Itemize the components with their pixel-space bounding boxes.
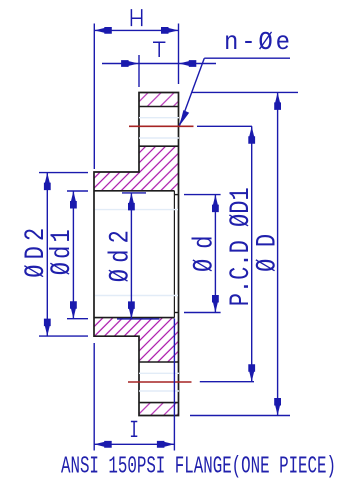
Od1 arrows: [70, 191, 77, 209]
Od bottom extension line: [184, 312, 221, 314]
T left extension line: [138, 55, 140, 87]
Od top extension line: [184, 194, 221, 196]
svg-text:ANSI 150PSI FLANGE(ONE PIECE): ANSI 150PSI FLANGE(ONE PIECE): [61, 454, 336, 481]
bolt hole top edge (upper): [139, 106, 179, 108]
PCD top extension line: [197, 125, 252, 127]
I arrows: [94, 441, 112, 448]
bolt hole top edge (lower): [139, 361, 179, 363]
flange outline: [94, 93, 179, 416]
bolt hole bottom edge (upper): [139, 145, 179, 147]
Od1 bottom extension line: [67, 318, 88, 320]
svg-text:Ød1: Ød1: [47, 229, 78, 275]
label I: [131, 422, 137, 437]
red centerline bottom bolt hole: [128, 381, 192, 383]
n-Oe leader diagonal: [180, 58, 205, 125]
OD dimension line: [277, 92, 279, 415]
n-Oe leader underline: [204, 57, 290, 59]
T arrows (outside): [121, 60, 139, 67]
Od arrows: [212, 195, 219, 213]
OD2 arrows: [44, 173, 51, 191]
OD arrows: [274, 92, 281, 110]
Od2 dimension line: [130, 193, 132, 319]
red centerline top bolt hole: [129, 125, 194, 127]
H/T right extension line: [178, 24, 180, 85]
PCD arrows: [248, 126, 255, 144]
Od1 top extension line: [67, 190, 88, 192]
hatched section: top flange band: [139, 93, 179, 107]
T dimension line: [102, 63, 216, 65]
H arrows: [94, 27, 112, 34]
hatched section: bottom flange band: [139, 403, 179, 416]
bore top edge: [94, 190, 174, 192]
Od1 dimension line: [72, 191, 74, 319]
OD bottom extension line: [190, 415, 290, 417]
bore step line: [173, 191, 175, 318]
hatched section: lower hub/plate region: [94, 318, 179, 362]
PCD bottom extension line: [200, 381, 254, 383]
I right extension line: [173, 319, 175, 451]
label H: [131, 9, 141, 26]
OD2 bottom extension line: [39, 335, 88, 337]
bore bottom edge: [94, 317, 174, 319]
H left extension line: [93, 24, 95, 170]
OD top extension line: [192, 91, 298, 93]
faint guide lines: [95, 118, 179, 391]
Od2 arrows: [128, 193, 135, 211]
small bore bottom edge: [174, 312, 178, 314]
I left extension line: [93, 343, 95, 451]
H dimension line: [94, 29, 178, 31]
OD2 dimension line: [46, 173, 48, 337]
I dimension line: [94, 443, 174, 445]
bolt hole bottom edge (lower): [139, 402, 179, 404]
PCD dimension line: [251, 126, 253, 381]
Od dimension line: [214, 195, 216, 313]
svg-text:Ød2: Ød2: [106, 230, 137, 282]
label T: [153, 42, 165, 57]
Od2 top stub: [122, 192, 146, 194]
OD2 top extension line: [39, 172, 88, 174]
hatched section: upper hub/plate region: [94, 146, 179, 191]
leader arrowhead n-Oe: [179, 110, 189, 126]
small bore top edge: [174, 194, 178, 196]
Od2 bottom stub: [117, 318, 159, 320]
